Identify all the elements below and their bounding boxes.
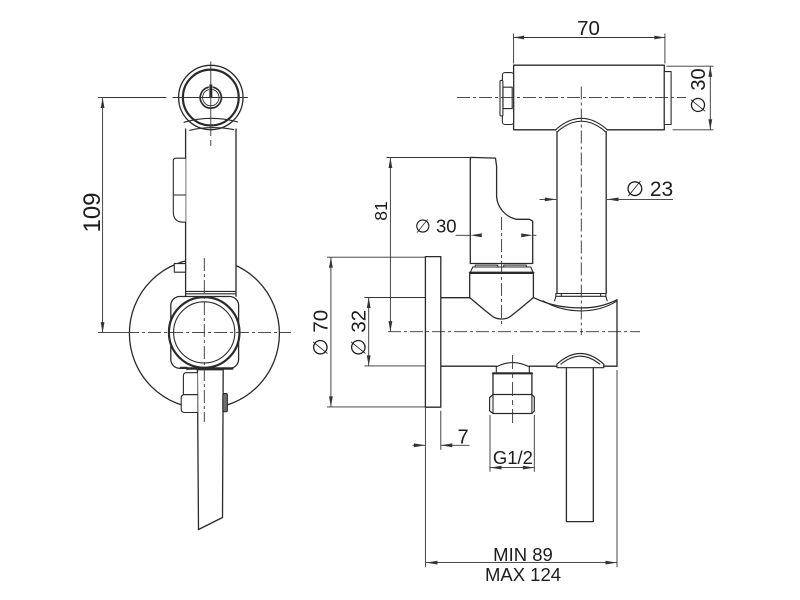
- head left thin washer: [500, 80, 503, 116]
- shower head cylinder (side): [514, 65, 665, 130]
- dimension O30 (head, right side): [667, 66, 714, 130]
- dimension 81: [387, 158, 471, 332]
- neck flare arc B: [190, 128, 234, 131]
- head left square nozzle: [503, 87, 512, 108]
- flange horizontal centerline: [126, 332, 291, 334]
- bottom-right tube: [566, 368, 593, 522]
- svg-text:∅ 70: ∅ 70: [310, 310, 333, 356]
- dimension 109: [98, 98, 126, 333]
- neck flare arc A: [184, 118, 238, 122]
- G1/2 outlet dome: [496, 363, 529, 373]
- left block lower (nut): [181, 395, 197, 413]
- step left of lever base: [181, 367, 188, 369]
- svg-text:81: 81: [371, 201, 391, 220]
- dimension 7: [413, 407, 470, 567]
- holder clip on left of tube: [173, 158, 185, 222]
- dimension MIN 89 / MAX 124: [426, 370, 617, 567]
- valve body outline: [441, 297, 470, 299]
- svg-text:G1/2: G1/2: [493, 447, 533, 468]
- shower head face ring (thick): [183, 70, 239, 126]
- head innermost ring with top gap: [203, 90, 219, 106]
- svg-text:7: 7: [457, 427, 468, 449]
- svg-text:MIN 89: MIN 89: [493, 544, 553, 565]
- G1/2 cylinder: [493, 372, 532, 374]
- saddle arcs on body top: [533, 298, 617, 308]
- dimension O70: [327, 257, 425, 407]
- head inner ring with top gap: [200, 87, 221, 108]
- neck dome arcs (side): [555, 118, 608, 130]
- dimension G1/2: [490, 415, 534, 472]
- valve lever (side view): [470, 157, 532, 263]
- cartridge ring inner: [174, 302, 235, 363]
- svg-text:109: 109: [79, 192, 106, 232]
- svg-text:∅ 23: ∅ 23: [626, 178, 674, 201]
- wall plate (O70 escutcheon, side): [425, 257, 440, 408]
- valve square face behind ring: [171, 297, 239, 369]
- wall flange circle (O70): [129, 259, 279, 409]
- left block upper: [183, 373, 197, 395]
- flange vertical centerline: [203, 258, 205, 422]
- head horizontal centerline: [457, 96, 686, 98]
- lever/funnel vertical centerline: [501, 217, 503, 327]
- square bottom thick edge: [187, 367, 232, 369]
- head right cap strip: [664, 72, 671, 125]
- head nozzle pin: [209, 85, 212, 98]
- cartridge ring outer: [169, 297, 240, 368]
- handle tube (side): [557, 132, 606, 294]
- collar rim above valve lever joint: [475, 265, 526, 267]
- collar trapezoid: [470, 267, 533, 272]
- svg-text:70: 70: [577, 17, 600, 40]
- head left cap: [502, 73, 513, 125]
- funnel (conical bottom of lever joint): [470, 298, 534, 319]
- tube bottom edge: [556, 293, 606, 295]
- G1/2 nut: [490, 395, 535, 414]
- dimension O30 (lever): [456, 233, 537, 237]
- body horizontal centerline: [388, 331, 640, 333]
- center lines, right view: [388, 87, 686, 426]
- dimension 70: [514, 34, 665, 64]
- center lines, left view: [104, 62, 291, 423]
- dimension O32: [364, 298, 425, 366]
- tube socket ring: [556, 294, 606, 297]
- svg-text:∅ 30: ∅ 30: [415, 216, 457, 237]
- svg-text:∅ 30: ∅ 30: [688, 68, 710, 113]
- svg-text:MAX 124: MAX 124: [485, 564, 561, 585]
- hand shower body tube (front): [186, 129, 236, 296]
- bottom-right outlet collar dome: [557, 354, 604, 365]
- holder cup flares: [555, 296, 608, 301]
- head vertical centerline: [210, 62, 212, 147]
- head horizontal centerline: [104, 97, 248, 99]
- valve shoulder sides: [470, 274, 534, 297]
- dimension O23: [540, 198, 674, 202]
- holder band left of tube: [174, 264, 185, 273]
- svg-text:∅ 32: ∅ 32: [348, 310, 371, 356]
- right tab (dark): [223, 394, 228, 412]
- G1/2 vertical centerline: [512, 355, 514, 425]
- tube vertical centerline: [580, 87, 582, 336]
- control lever (front, pointing down): [197, 370, 223, 530]
- shower head outer circle: [179, 65, 243, 129]
